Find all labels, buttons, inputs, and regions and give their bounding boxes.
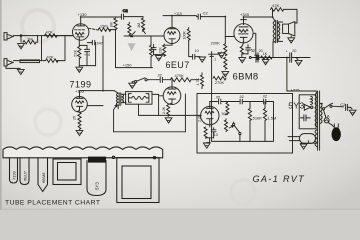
svg-text:+10: +10 xyxy=(84,53,90,57)
capacitor 10uF bypass xyxy=(85,45,90,55)
svg-text:2.2K: 2.2K xyxy=(162,106,166,114)
wire grid divider drop xyxy=(224,37,226,44)
capacitor line filter xyxy=(346,104,352,110)
capacitor .047 xyxy=(87,40,95,44)
reverb transformer T1 core xyxy=(119,93,121,106)
V2 cathode xyxy=(169,39,175,44)
wire plate to inner box xyxy=(210,101,212,103)
fuse 1A body xyxy=(324,118,329,123)
resistor V2 cathode xyxy=(163,44,166,56)
input jack J2 xyxy=(4,59,13,66)
pot P2 wiper arrow xyxy=(143,30,146,34)
wire V2 plate rail xyxy=(163,15,196,17)
SW1 ground lead xyxy=(132,82,134,83)
pot P1 volume body xyxy=(114,17,117,30)
wire B+ to rectifier xyxy=(286,58,288,92)
fuse inner xyxy=(325,120,329,121)
label +165 wire xyxy=(80,91,115,97)
5Y3 diode cathode circle xyxy=(311,106,313,108)
svg-text:C2: C2 xyxy=(203,11,209,16)
ground line cap xyxy=(349,110,356,115)
wire V1 plate rail xyxy=(81,16,122,18)
ground V2 cathode xyxy=(155,56,162,61)
svg-text:+130: +130 xyxy=(78,12,88,17)
svg-text:22K: 22K xyxy=(158,47,162,54)
wire V2 cathode tie xyxy=(164,43,172,45)
T3 secondary winding right xyxy=(320,103,322,123)
resistor 47K feedback xyxy=(271,8,284,12)
resistor V4 cathode xyxy=(167,103,172,116)
reverb unit box bottom xyxy=(114,131,186,133)
tube V3 7199 triode envelope xyxy=(72,97,88,113)
V1 screen grid dashes xyxy=(75,29,85,31)
resistor R 47K ch2 xyxy=(46,59,58,63)
cap A ground lead xyxy=(258,58,265,60)
scan edge shading bottom xyxy=(0,209,360,210)
screw A xyxy=(112,156,114,158)
V6 cathode bypass cap xyxy=(242,45,251,54)
V6 plate cap stub xyxy=(241,17,247,25)
5Y3 heater winding xyxy=(311,96,313,104)
wire wiper bus xyxy=(124,35,151,37)
svg-text:.05: .05 xyxy=(215,96,220,100)
resistor R 1M xyxy=(23,40,36,44)
chassis bar chart xyxy=(3,147,163,158)
wire trem osc top xyxy=(210,101,212,103)
capacitor 20uF B xyxy=(290,53,292,62)
svg-text:+150: +150 xyxy=(123,62,133,67)
svg-text:20: 20 xyxy=(292,49,296,53)
T3 bottom ground lead xyxy=(301,141,318,144)
wire .15M to pot xyxy=(109,29,116,31)
svg-text:1M: 1M xyxy=(110,23,114,28)
svg-text:+325: +325 xyxy=(291,88,301,93)
tube outline 6EU7 xyxy=(20,158,29,185)
SW1 contacts xyxy=(135,81,137,83)
svg-text:1M: 1M xyxy=(27,37,33,42)
V6 cathode xyxy=(240,37,247,43)
wire cathode bottom tie xyxy=(154,54,165,57)
wire C2 to 6BM8 grid xyxy=(202,17,234,37)
svg-text:.15M: .15M xyxy=(99,24,108,29)
resistor V3 cathode xyxy=(78,110,81,122)
resistor V3 lower xyxy=(78,122,81,130)
wire ch2 join xyxy=(56,36,65,60)
resistor trem feedback xyxy=(225,102,229,115)
trem footswitch SW2 xyxy=(234,122,240,141)
watermark ring bottom-center xyxy=(231,180,255,204)
svg-text:510K: 510K xyxy=(253,115,263,120)
capacitor cathode bypass xyxy=(151,44,156,54)
power transformer inner xyxy=(122,166,151,199)
ground T3 bottom xyxy=(300,144,307,149)
wire tank output xyxy=(152,94,201,115)
capacitor C1 coupling xyxy=(121,14,123,19)
wire V6 g1 feedback drop xyxy=(253,33,256,55)
svg-text:+345: +345 xyxy=(240,12,250,17)
SW2 contacts xyxy=(233,123,235,125)
V3 plate xyxy=(76,97,83,99)
wire 47K to speaker xyxy=(284,9,297,23)
output transformer T2 core xyxy=(276,20,278,42)
svg-text:+115: +115 xyxy=(174,12,182,16)
capacitor T.1 xyxy=(209,54,215,56)
terminal circle filter xyxy=(249,57,251,59)
T1 primary winding xyxy=(116,93,118,105)
power transformer block xyxy=(117,158,159,203)
V5 cathode xyxy=(207,119,213,127)
resistor V5 under xyxy=(204,127,207,138)
capacitor feedback xyxy=(255,55,261,60)
svg-text:.02: .02 xyxy=(262,95,267,99)
tube V4 recovery envelope xyxy=(163,87,181,105)
tube outline 5Y3 xyxy=(87,161,106,196)
svg-text:4.7K: 4.7K xyxy=(196,78,200,86)
ground under jack2 xyxy=(17,69,24,74)
SW3 contacts xyxy=(322,108,324,110)
resistor 1.5M xyxy=(263,102,266,142)
jack2 shorting bar xyxy=(20,60,40,63)
svg-text:.047: .047 xyxy=(96,42,103,46)
wire T3 to power switch xyxy=(320,102,322,104)
svg-text:270K: 270K xyxy=(215,80,225,85)
svg-text:C2: C2 xyxy=(123,8,129,13)
wire reverb feed vertical xyxy=(102,36,104,91)
T2 secondary leads xyxy=(278,22,283,41)
capacitor .02 trem C xyxy=(264,99,266,104)
svg-text:.1: .1 xyxy=(213,57,216,61)
ground V6 cathode xyxy=(239,58,246,63)
V5 grid zigzag xyxy=(205,111,214,114)
svg-text:6BM8: 6BM8 xyxy=(41,172,46,183)
wire tank bottom drop xyxy=(139,104,159,115)
ground decoupling cap xyxy=(199,57,206,62)
wire plate load to decoup cap xyxy=(189,41,193,57)
resistor grid leak xyxy=(150,36,153,58)
pot P3 tone body xyxy=(128,22,131,36)
capacitor 10 decoupling xyxy=(193,54,201,59)
V1 plate xyxy=(77,17,85,26)
resistor V2 plate load xyxy=(187,27,190,41)
tube outline 7199 xyxy=(10,158,18,183)
capacitor 20uF A xyxy=(256,53,258,62)
pot trem depth xyxy=(225,119,228,132)
capacitor V5 under xyxy=(211,128,216,138)
wire C1 to P2 xyxy=(124,16,143,18)
svg-text:47K: 47K xyxy=(272,3,279,8)
V1 control grid zigzag xyxy=(75,33,84,36)
tank pickup coil xyxy=(146,94,149,103)
svg-text:5Y3: 5Y3 xyxy=(288,101,305,111)
svg-text:470K: 470K xyxy=(175,73,185,78)
wire 1K to secondary xyxy=(271,57,273,59)
speaker cone xyxy=(289,22,295,36)
power transformer T3 core xyxy=(318,91,320,150)
wire tank to recovery grid xyxy=(159,95,164,97)
svg-text:.02: .02 xyxy=(239,95,244,99)
svg-text:10: 10 xyxy=(214,133,218,137)
wire under tie xyxy=(206,138,214,143)
wire speaker ground lead xyxy=(290,36,292,38)
ground divider xyxy=(222,72,229,77)
svg-text:+165: +165 xyxy=(75,88,85,93)
wire grid leak to +150 rail xyxy=(150,58,152,68)
svg-text:7199: 7199 xyxy=(12,170,17,180)
wire channel tie vertical xyxy=(41,36,43,61)
lamp leads xyxy=(288,137,299,141)
ground cap A xyxy=(262,60,269,65)
ground cap B xyxy=(295,60,302,65)
wire ch1 to tube xyxy=(55,35,73,37)
wire B+ dropper vertical xyxy=(116,30,153,68)
V3 grid zigzag xyxy=(76,101,84,104)
resistor 22K cathode xyxy=(78,47,81,59)
svg-text:50K: 50K xyxy=(222,112,229,116)
ground lead jack2 xyxy=(6,66,20,69)
wire cathode tie top xyxy=(79,44,87,46)
ground cathode network xyxy=(78,66,80,67)
T2 primary winding xyxy=(273,21,275,42)
tank spring xyxy=(132,96,146,99)
T2 secondary winding xyxy=(278,23,280,39)
V6 screen dashes xyxy=(239,33,248,35)
svg-text:10: 10 xyxy=(195,49,199,53)
tube outline 6BM8 xyxy=(38,158,48,192)
T1 primary top lead xyxy=(114,91,118,94)
V3 cathode xyxy=(77,106,83,110)
svg-text:2.2K: 2.2K xyxy=(198,114,202,122)
reverb unit box right edge xyxy=(184,94,186,132)
V6 cathode resistor xyxy=(240,43,243,58)
rectifier 5Y3 box xyxy=(299,95,316,129)
svg-text:47K: 47K xyxy=(46,29,53,34)
AC plug prongs xyxy=(334,124,338,128)
V2 plate xyxy=(169,16,176,29)
watermark gray arrow xyxy=(128,43,136,51)
watermark ring top-left xyxy=(22,10,54,42)
capacitor .05 trem A xyxy=(219,99,221,104)
svg-text:20: 20 xyxy=(259,49,263,53)
V4 cathode xyxy=(169,99,176,103)
V5 plate xyxy=(206,102,213,109)
wire filter bus xyxy=(251,57,310,59)
svg-text:1.5M: 1.5M xyxy=(267,115,276,120)
V6 grid zigzag xyxy=(239,30,248,33)
resistor R 47K ch1 xyxy=(45,34,57,38)
wire jack2 xyxy=(13,60,45,62)
watermark ring bottom-left xyxy=(35,109,61,135)
output transformer inner xyxy=(58,163,77,181)
T3 winding lower xyxy=(315,130,317,147)
T3 primary winding upper xyxy=(315,93,317,127)
wire +325 rail xyxy=(287,90,316,92)
svg-text:C2: C2 xyxy=(340,102,346,107)
T2 primary top lead xyxy=(273,17,275,21)
ground speaker xyxy=(288,38,295,43)
svg-text:1A: 1A xyxy=(325,114,330,119)
speaker driver box xyxy=(283,24,289,33)
tank drive coil xyxy=(128,94,131,103)
ground V4 cathode xyxy=(165,118,172,123)
screw B xyxy=(153,156,155,158)
T1 primary bottom lead xyxy=(117,105,119,109)
svg-text:220K: 220K xyxy=(211,41,221,46)
svg-text:1K: 1K xyxy=(263,52,268,56)
resistor 510K xyxy=(248,102,251,142)
wire B+ plate rail xyxy=(244,16,273,18)
input jack J1 xyxy=(4,33,13,40)
ground under 1M xyxy=(18,44,25,49)
junction dots xyxy=(80,15,288,92)
svg-text:+: + xyxy=(286,50,288,54)
tube V6 6BM8 envelope xyxy=(234,24,253,43)
tube V2 6EU7a envelope xyxy=(164,28,180,44)
V2 grid zigzag xyxy=(168,32,176,35)
AC plug body xyxy=(332,127,341,141)
svg-text:+: + xyxy=(252,50,254,54)
T1 secondary leads xyxy=(122,94,126,102)
T1 secondary winding xyxy=(122,94,124,102)
wire 47K riser xyxy=(272,9,274,17)
node junction xyxy=(20,35,22,37)
svg-text:22K: 22K xyxy=(72,50,77,57)
resistor 1K feedback xyxy=(261,56,272,59)
resistor .15M xyxy=(98,28,110,32)
svg-text:.02: .02 xyxy=(157,74,162,78)
5Y3 black base xyxy=(88,157,106,163)
svg-text:100K: 100K xyxy=(183,31,187,40)
resistor 270K lower xyxy=(224,57,227,69)
ground symbol V1 cathode xyxy=(76,67,83,72)
V6 plate xyxy=(239,26,248,28)
tube V1 7199 pentode envelope xyxy=(73,24,89,40)
wire jack1 to grid xyxy=(13,35,72,37)
svg-text:6EU7: 6EU7 xyxy=(23,170,28,181)
tremolo inner box xyxy=(212,102,274,142)
svg-text:5Y3: 5Y3 xyxy=(95,182,100,190)
reverb tank box xyxy=(126,92,152,105)
V4 plate xyxy=(168,80,176,89)
wire V3 plate out xyxy=(87,105,103,107)
pot P2 body xyxy=(141,17,144,30)
resistor 270K horizontal xyxy=(213,76,226,80)
ground V3 cathode xyxy=(76,130,83,135)
pilot lamp capsule xyxy=(299,134,315,144)
wire V1 plate dashes to .15M xyxy=(89,28,98,30)
cord fuse to plug xyxy=(328,123,334,128)
svg-text:47K: 47K xyxy=(47,54,54,59)
wire T.1 to ground xyxy=(215,52,222,54)
capacitor C2 coupling xyxy=(196,14,202,19)
ground SW1 xyxy=(129,83,136,88)
output transformer block xyxy=(53,159,81,185)
V4 grid zigzag xyxy=(167,92,176,95)
reverb footswitch SW1 xyxy=(137,78,149,81)
pot wiper to switch xyxy=(229,126,233,128)
wire 1M drop xyxy=(20,36,22,43)
wire bus to grid V2 xyxy=(151,35,164,37)
ground trem under xyxy=(203,143,210,148)
svg-text:25: 25 xyxy=(73,116,77,120)
resistor 470K xyxy=(170,78,191,82)
svg-text:6BM8: 6BM8 xyxy=(233,72,259,83)
tremolo outer box xyxy=(197,94,293,154)
cap B ground lead xyxy=(292,58,298,60)
wire SW3 to line cap xyxy=(332,105,343,108)
V1 cathode xyxy=(77,37,84,40)
wire V1 cathode drop xyxy=(78,40,80,47)
wire 470K to 4.7K xyxy=(191,79,199,81)
reverb unit box left edge xyxy=(114,105,117,132)
resistor 220K xyxy=(224,44,227,56)
svg-text:GA-1 RVT: GA-1 RVT xyxy=(253,174,306,184)
wiper arrow onto bus xyxy=(131,32,136,37)
T3 top lead xyxy=(315,91,317,93)
capacitor .02 reverb xyxy=(149,77,171,82)
power switch SW3 xyxy=(325,103,333,108)
capacitor inside 5Y3 box xyxy=(300,115,310,121)
ground T.1 xyxy=(218,53,225,58)
capacitor .02 trem B xyxy=(240,99,242,104)
wire riser to .047 xyxy=(95,43,97,66)
resistor 4.7K vertical xyxy=(201,73,204,89)
svg-text:1M: 1M xyxy=(137,23,141,28)
T2 primary bottom lead xyxy=(273,42,275,58)
fuse lead upper xyxy=(324,110,326,117)
svg-text:TUBE PLACEMENT CHART: TUBE PLACEMENT CHART xyxy=(5,200,100,207)
5Y3 diode xyxy=(304,104,310,110)
tube V5 tremolo envelope xyxy=(201,106,219,124)
wire 1M riser xyxy=(36,36,38,43)
wire cathode bottom tie xyxy=(79,55,95,65)
wire long divider vertical xyxy=(211,52,213,102)
svg-text:6EU7: 6EU7 xyxy=(166,60,190,70)
scan edge shading left xyxy=(0,0,2,210)
